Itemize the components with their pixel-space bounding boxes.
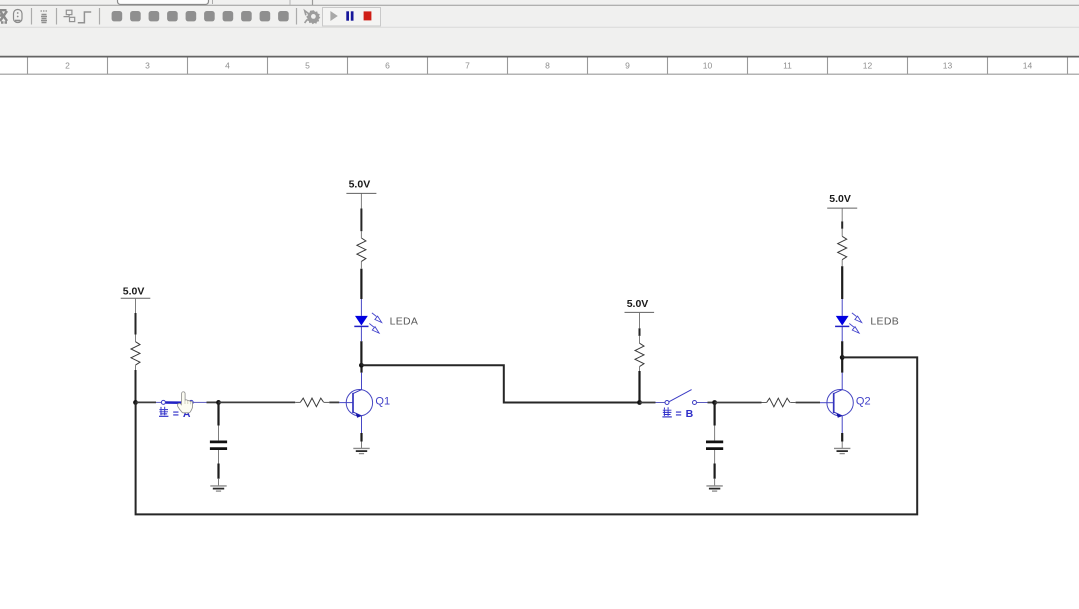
wire C2 to ground xyxy=(713,464,715,479)
toolbar background xyxy=(0,0,1079,57)
Q2 emitter pin xyxy=(841,416,843,433)
R6 top lead xyxy=(841,229,843,237)
wire V1 to R1 xyxy=(135,313,137,335)
R2 right lead xyxy=(324,401,329,403)
wire Q2 emitter to ground xyxy=(841,433,843,442)
LED2 anode pin xyxy=(841,299,843,316)
hand cursor over switch S1 xyxy=(177,392,192,413)
wire node E to R5 xyxy=(715,402,762,404)
S2 left pin lead xyxy=(656,402,665,404)
switch S2 blade (open) xyxy=(669,390,692,402)
cross wire node C to node D (step) xyxy=(361,365,639,402)
play button (gray triangle) xyxy=(330,11,337,21)
svg-text:=: = xyxy=(173,408,179,420)
wire node B down to C1 xyxy=(217,402,219,425)
node B junction dot xyxy=(216,400,221,405)
svg-text:5: 5 xyxy=(305,61,310,71)
LEDA emission arrows xyxy=(369,313,381,333)
svg-text:9: 9 xyxy=(625,61,630,71)
ground GND4 xyxy=(834,448,850,453)
R2 left lead xyxy=(295,401,300,403)
switch S1 label 键 = A xyxy=(159,407,191,420)
svg-text:LEDA: LEDA xyxy=(390,316,419,328)
svg-text:7: 7 xyxy=(465,61,470,71)
svg-text:=: = xyxy=(676,408,682,420)
svg-text:12: 12 xyxy=(863,61,873,71)
wire R4 to node D xyxy=(638,371,640,403)
wire LED1 to R3 xyxy=(360,269,362,299)
switch S1 right terminal xyxy=(189,400,193,404)
wire Q1 emitter to ground xyxy=(360,433,362,442)
resistor R2 xyxy=(300,398,323,407)
capacitor C1 xyxy=(210,442,227,449)
resistor R6 xyxy=(838,236,847,259)
wire C1 to ground xyxy=(217,464,219,479)
S2 right pin lead xyxy=(697,402,708,404)
wire node E down to C2 xyxy=(713,403,715,426)
wire Q1 collector to node C xyxy=(360,365,362,372)
svg-text:10: 10 xyxy=(703,61,713,71)
resistor R5 xyxy=(767,398,790,407)
wire node A to switch S1 xyxy=(136,401,157,403)
R1 top lead xyxy=(135,335,137,342)
wire node F up to LED2 xyxy=(841,341,843,357)
svg-text:4: 4 xyxy=(225,61,230,71)
simulation button group box xyxy=(323,8,381,27)
switch S1 left terminal xyxy=(161,400,165,404)
ruler numbers xyxy=(65,61,1032,71)
pause button (blue bars) xyxy=(346,11,353,20)
V4 pin lead xyxy=(841,208,843,221)
wire V3 to R4 xyxy=(639,328,641,336)
node C junction dot xyxy=(359,363,364,368)
wire LED2 to R6 xyxy=(841,266,843,299)
wire R1 to node A xyxy=(135,370,137,402)
toolbar icon probe xyxy=(41,11,48,23)
ground GND3 xyxy=(706,486,722,491)
R3 top lead xyxy=(360,231,362,238)
wire node C up to LED1 xyxy=(360,341,362,365)
wire R6 to V4 xyxy=(841,221,843,228)
power source V3 VCC T-bar xyxy=(625,311,655,313)
S1 left pin lead xyxy=(156,401,161,403)
Q1 base pin xyxy=(339,402,353,404)
V2 pin lead xyxy=(360,193,362,208)
V1 pin lead xyxy=(135,298,137,313)
R6 bottom lead xyxy=(841,260,843,266)
R4 top lead xyxy=(639,336,641,343)
S1 right pin lead xyxy=(193,401,206,403)
LED1 anode pin xyxy=(360,299,362,316)
node A junction dot xyxy=(133,400,138,405)
R5 left lead xyxy=(762,402,767,404)
resistor R1 xyxy=(131,342,140,365)
wire Q2 collector to node F xyxy=(841,357,843,372)
Q1 collector pin xyxy=(361,373,363,390)
switch S2 left terminal xyxy=(665,401,669,405)
ruler ticks xyxy=(28,58,1068,75)
toolbar separator xyxy=(56,8,58,25)
toolbar icon group 1 xyxy=(0,10,22,23)
svg-text:5.0V: 5.0V xyxy=(627,298,649,310)
C2 bottom lead xyxy=(714,450,716,464)
wire node B to R2 xyxy=(219,401,296,403)
svg-text:3: 3 xyxy=(145,61,150,71)
power source V2 VCC T-bar xyxy=(346,192,376,194)
toolbar separator xyxy=(31,8,33,25)
switch S2 label 键 = B xyxy=(662,407,693,420)
svg-text:13: 13 xyxy=(943,61,953,71)
C2 top lead xyxy=(714,426,716,441)
wire node D to switch S2 xyxy=(640,402,656,404)
svg-text:Q1: Q1 xyxy=(375,396,390,408)
switch S1 blade (closed) xyxy=(166,401,189,404)
power source V4 VCC T-bar xyxy=(827,207,857,209)
node E junction dot xyxy=(712,400,717,405)
feedback wire node F to node A (right, bottom, left) xyxy=(136,357,918,514)
svg-text:Q2: Q2 xyxy=(856,396,871,408)
Q2 base pin xyxy=(820,402,834,404)
LED LEDA xyxy=(354,316,368,327)
wire R5 to Q2 base xyxy=(796,402,820,404)
wire R3 to V2 xyxy=(360,209,362,232)
toolbar separator xyxy=(296,8,298,25)
ground GND1 xyxy=(210,486,226,491)
resistor R4 xyxy=(635,343,644,366)
combobox bottom sliver xyxy=(118,0,313,5)
LEDB emission arrows xyxy=(849,313,861,333)
toolbar icon step wave xyxy=(78,12,91,23)
C1 top lead xyxy=(218,426,220,441)
ground GND2 xyxy=(353,448,369,453)
LED1 cathode pin xyxy=(360,327,362,342)
V3 pin lead xyxy=(639,312,641,328)
ruler band xyxy=(0,57,1079,75)
ground GND4 lead xyxy=(841,442,843,449)
svg-text:B: B xyxy=(686,408,694,420)
svg-text:5.0V: 5.0V xyxy=(123,285,145,297)
power source V1 VCC T-bar xyxy=(121,297,151,299)
ground GND2 lead xyxy=(361,442,363,449)
svg-text:8: 8 xyxy=(545,61,550,71)
wire S1 to node B xyxy=(207,401,219,403)
stop button (red square) xyxy=(364,11,372,20)
capacitor C2 xyxy=(706,442,723,449)
toolbar separator xyxy=(99,8,101,25)
svg-text:14: 14 xyxy=(1023,61,1033,71)
R4 bottom lead xyxy=(639,367,641,371)
switch S2 right terminal xyxy=(693,401,697,405)
wire S2 to node E xyxy=(708,402,715,404)
node F junction dot xyxy=(840,355,845,360)
transistor Q1 xyxy=(346,390,372,418)
svg-text:11: 11 xyxy=(783,61,792,71)
LED2 cathode pin xyxy=(841,327,843,342)
LED LEDB xyxy=(835,316,849,327)
svg-text:5.0V: 5.0V xyxy=(349,178,371,190)
wire R2 to Q1 base xyxy=(329,401,339,403)
transistor Q2 xyxy=(827,390,853,418)
svg-text:2: 2 xyxy=(65,61,70,71)
R3 bottom lead xyxy=(360,261,362,268)
R5 right lead xyxy=(790,402,795,404)
node D junction dot xyxy=(637,400,642,405)
ground GND3 lead xyxy=(714,479,716,486)
C1 bottom lead xyxy=(218,450,220,464)
svg-text:6: 6 xyxy=(385,61,390,71)
Q1 emitter pin xyxy=(361,416,363,433)
resistor R3 xyxy=(357,238,366,261)
svg-text:LEDB: LEDB xyxy=(870,316,899,328)
toolbar icon hierarchy xyxy=(64,10,75,21)
R1 bottom lead xyxy=(135,365,137,370)
Q2 collector pin xyxy=(841,373,843,390)
toolbar gear icon xyxy=(305,10,321,24)
svg-text:5.0V: 5.0V xyxy=(829,193,851,205)
ground GND1 lead xyxy=(218,479,220,486)
toolbar gray buttons row xyxy=(112,11,289,21)
